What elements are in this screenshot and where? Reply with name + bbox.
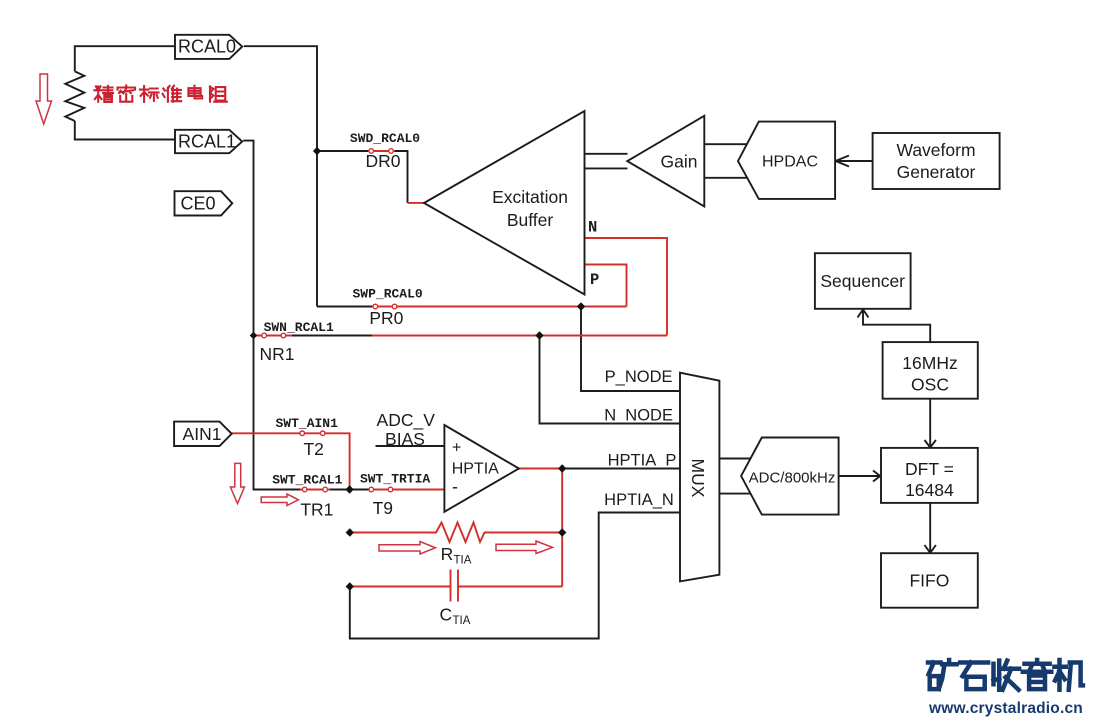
svg-text:SWT_RCAL1: SWT_RCAL1 [272, 473, 342, 488]
wire buffer P output [585, 265, 627, 307]
block ADC [741, 438, 839, 515]
pin AIN1 [174, 422, 232, 446]
svg-text:www.crystalradio.cn: www.crystalradio.cn [928, 700, 1083, 717]
svg-text:BIAS: BIAS [385, 429, 425, 449]
switch contacts [262, 149, 397, 492]
op-amp gain [627, 116, 704, 207]
wire PR0 red segment [372, 306, 627, 308]
red chinese annotation 精密标准电阻 [94, 85, 226, 102]
wire DFT to FIFO arrow [925, 503, 936, 553]
svg-text:SWN_RCAL1: SWN_RCAL1 [264, 320, 334, 335]
wire DR0 switch lever [368, 150, 395, 152]
node RTIA right junction [558, 528, 566, 536]
block sequencer [815, 253, 911, 309]
wire MUX to ADC [719, 459, 750, 494]
wire PR0 black segment [317, 306, 372, 308]
svg-text:TIA: TIA [453, 615, 471, 627]
svg-text:ADC/800kHz: ADC/800kHz [749, 470, 836, 487]
char 密 [118, 85, 136, 101]
arrow current down (top left) [36, 74, 52, 124]
char 准 [163, 86, 182, 102]
wire RCAL0 left to resistor [75, 46, 175, 139]
pin RCAL1 [175, 130, 242, 153]
svg-text:P_NODE: P_NODE [605, 368, 673, 386]
shapes [174, 35, 1000, 608]
arrow current right (RTIA left) [379, 542, 435, 555]
svg-text:MUX: MUX [688, 459, 708, 498]
node HPTIA output junction [558, 464, 566, 472]
svg-text:NR1: NR1 [259, 344, 294, 364]
logo char 收 [994, 661, 1020, 690]
svg-text:HPDAC: HPDAC [762, 154, 818, 171]
block 16MHz OSC [883, 342, 978, 399]
wire DR0 red segment to buffer tip [408, 202, 424, 204]
wire ADC_V BIAS to HPTIA plus input [376, 445, 445, 447]
wire waveform generator to HPDAC with arrowhead [836, 156, 873, 167]
char 精 [94, 86, 113, 102]
svg-text:Generator: Generator [897, 162, 976, 182]
wire buffer N output [585, 238, 668, 336]
arrow current right (TR1) [261, 494, 298, 506]
wire HPTIA_P black segment to MUX [562, 468, 680, 470]
node NR1 junction [250, 332, 258, 340]
char 标 [140, 86, 159, 102]
wire HPTIA feedback right vertical [561, 469, 563, 587]
wire DR0 branch [317, 151, 408, 203]
wire T9 to HPTIA minus input [371, 489, 444, 491]
logo char 机 [1054, 660, 1083, 690]
node RCAL0/DR0 junction [313, 147, 321, 155]
switch TR1 contacts [302, 487, 307, 492]
svg-text:ADC_V: ADC_V [377, 410, 436, 431]
svg-text:16484: 16484 [905, 480, 954, 500]
logo char 音 [1023, 660, 1052, 689]
block DFT [881, 448, 978, 503]
char 阻 [210, 86, 227, 101]
svg-text:N_NODE: N_NODE [604, 407, 673, 425]
svg-text:FIFO: FIFO [909, 571, 949, 591]
svg-text:SWP_RCAL0: SWP_RCAL0 [352, 287, 422, 302]
svg-text:SWD_RCAL0: SWD_RCAL0 [350, 131, 420, 146]
svg-text:Excitation: Excitation [492, 187, 568, 207]
svg-text:SWT_TRTIA: SWT_TRTIA [360, 472, 430, 487]
wire P_NODE drop [581, 307, 680, 392]
switch T9 contacts [369, 487, 374, 492]
wire NR1 red segment [254, 335, 668, 337]
switch T2 contacts [300, 431, 305, 436]
svg-text:DFT =: DFT = [905, 459, 954, 479]
switch PR0 contacts [373, 304, 378, 309]
svg-text:AIN1: AIN1 [183, 424, 222, 444]
svg-text:R: R [441, 544, 454, 564]
node RTIA left junction [346, 528, 354, 536]
svg-text:P: P [590, 271, 599, 289]
svg-text:RCAL1: RCAL1 [178, 132, 236, 152]
svg-text:C: C [440, 605, 453, 625]
capacitor C_TIA [350, 570, 562, 602]
svg-text:TR1: TR1 [300, 500, 333, 520]
svg-text:-: - [452, 477, 458, 497]
svg-text:HPTIA_N: HPTIA_N [604, 491, 674, 509]
svg-text:Buffer: Buffer [507, 210, 554, 230]
block waveform generator [873, 133, 1000, 189]
switch NR1 contacts [262, 333, 267, 338]
wire RCAL1 tail down-left vertical [243, 141, 349, 490]
wire N_NODE drop [540, 336, 681, 424]
wire T9 black segment [350, 489, 371, 491]
wire ADC to DFT arrow [839, 471, 881, 482]
svg-text:N: N [588, 219, 597, 237]
arrow current down (below AIN1) [230, 463, 244, 503]
wire OSC to DFT arrow [925, 399, 936, 448]
svg-text:RCAL0: RCAL0 [178, 37, 236, 57]
svg-text:Waveform: Waveform [896, 140, 975, 160]
logo char 石 [960, 663, 988, 690]
arrow current right (RTIA right) [496, 541, 553, 554]
block MUX [680, 373, 719, 582]
svg-text:HPTIA_P: HPTIA_P [608, 452, 677, 470]
wire RCAL0 to DR0 node [244, 46, 317, 306]
wire HPTIA_N return path [350, 513, 680, 639]
logo 矿石收音机 [928, 660, 1083, 690]
wire gain to HPDAC [704, 144, 747, 178]
svg-text:+: + [452, 440, 461, 457]
svg-text:T9: T9 [373, 498, 393, 518]
node TR1/T9 junction [345, 485, 353, 493]
block FIFO [881, 553, 978, 608]
svg-text:16MHz: 16MHz [902, 353, 957, 373]
svg-text:TIA: TIA [454, 555, 472, 567]
block HPDAC [738, 122, 835, 199]
svg-text:DR0: DR0 [365, 151, 400, 171]
op-amp excitation buffer [424, 111, 585, 295]
svg-text:HPTIA: HPTIA [452, 461, 499, 478]
svg-text:SWT_AIN1: SWT_AIN1 [275, 416, 338, 431]
wire buffer to gain [585, 154, 628, 169]
svg-text:T2: T2 [303, 439, 323, 459]
node P_NODE junction [577, 302, 585, 310]
red hollow arrows [36, 74, 553, 554]
svg-text:OSC: OSC [911, 375, 949, 395]
logo char 矿 [928, 660, 957, 689]
svg-text:Gain: Gain [661, 152, 698, 172]
junction dots [250, 147, 586, 591]
wire OSC to sequencer with arrowhead [858, 310, 931, 343]
node N_NODE junction [535, 331, 543, 339]
svg-text:CE0: CE0 [180, 194, 215, 214]
op-amp HPTIA [444, 425, 519, 512]
wire NR1 black segment [292, 335, 372, 337]
svg-text:PR0: PR0 [369, 308, 403, 328]
pin CE0 [175, 191, 233, 215]
switch DR0 contacts [369, 149, 374, 154]
wire AIN1 through T2 [232, 433, 350, 489]
node CTIA left junction [346, 582, 354, 590]
wire HPTIA output red segment [519, 468, 562, 470]
resistor RCAL (precision standard resistor) [65, 71, 84, 121]
svg-text:Sequencer: Sequencer [820, 271, 905, 291]
char 电 [188, 86, 202, 99]
wire TR1 switch lever [300, 489, 330, 491]
pin RCAL0 [175, 35, 242, 59]
resistor R_TIA [350, 523, 562, 543]
